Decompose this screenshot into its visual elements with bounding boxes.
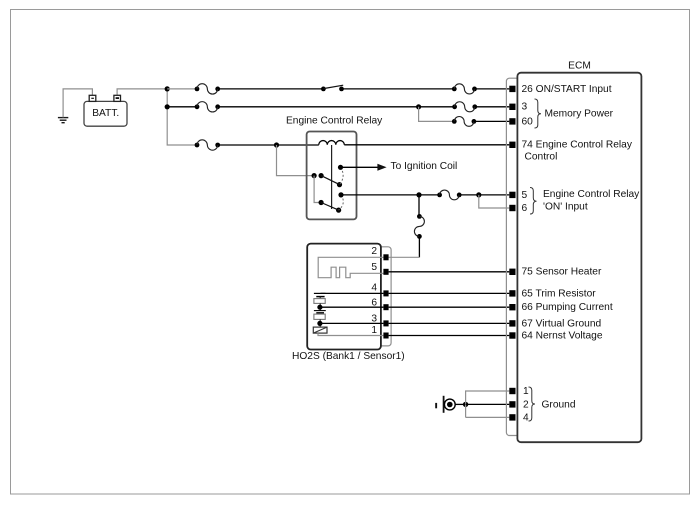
wire coil to ECM pin 74 [344, 144, 509, 146]
wire fuse F4 to ECM pin 26 [475, 88, 510, 90]
node HO2S pin6 [317, 305, 322, 310]
wire row2 fuse to node [218, 106, 455, 108]
node ground branch [463, 402, 468, 407]
ECM pin squares [509, 86, 515, 421]
ECM pin labels [522, 84, 641, 424]
wire HO2S 6 to ECM 66 [389, 306, 510, 308]
relay lower fixed contact [338, 192, 343, 197]
relay common drop wire [314, 176, 321, 203]
bus vertical from battery [167, 89, 197, 145]
fuse F2 [195, 102, 221, 112]
wire ground to ECM pin 2 [466, 403, 510, 405]
HO2S pin squares [383, 254, 388, 338]
ignition switch [321, 85, 344, 91]
fuse F6 [452, 116, 476, 126]
HO2S trim resistor (box with diagonal) [313, 327, 327, 333]
relay upper fixed contact [338, 165, 343, 170]
svg-text:Ground: Ground [542, 399, 576, 410]
ECM box [517, 73, 641, 443]
svg-text:Engine Control Relay: Engine Control Relay [543, 189, 640, 200]
wire fuse F5 to ECM pin 3 [475, 106, 510, 108]
wire fuse F7 to pin 5 [459, 194, 509, 196]
node relay output branch [416, 192, 421, 197]
svg-text:BATT.: BATT. [92, 108, 119, 119]
svg-text:5: 5 [371, 262, 377, 273]
relay box [307, 132, 357, 220]
relay common node [312, 173, 317, 178]
svg-text:2: 2 [371, 246, 377, 257]
svg-text:5: 5 [522, 190, 528, 201]
svg-text:3: 3 [522, 102, 528, 113]
svg-text:75 Sensor Heater: 75 Sensor Heater [522, 267, 602, 278]
svg-text:66 Pumping Current: 66 Pumping Current [522, 302, 613, 313]
fuse F8 vertical [414, 214, 424, 239]
chassis ground symbol [435, 396, 455, 413]
relay lower contact blade [319, 195, 344, 213]
svg-text:60: 60 [522, 116, 534, 127]
ECM connector strip [506, 78, 517, 435]
wire fuse F6 to ECM pin 60 [474, 120, 509, 122]
battery BATT. [84, 95, 127, 126]
wire fuse F8 down to HO2S pin 2 [418, 236, 420, 257]
node row3 relay feed [274, 142, 279, 147]
wire HO2S 4 to ECM 65 [389, 292, 510, 294]
svg-text:ECM: ECM [568, 60, 591, 71]
wire HO2S pin3 [320, 322, 384, 324]
wire to ignition coil [341, 166, 378, 168]
svg-text:4: 4 [523, 412, 529, 423]
svg-text:To Ignition Coil: To Ignition Coil [391, 161, 458, 172]
svg-text:65 Trim Resistor: 65 Trim Resistor [522, 288, 597, 299]
wire HO2S 3 to ECM 67 [389, 322, 510, 324]
fuse F5 [452, 102, 477, 112]
ground (battery negative) [58, 118, 68, 123]
wire HO2S 1 to ECM 64 [389, 335, 510, 337]
svg-text:4: 4 [371, 283, 377, 294]
svg-text:Memory Power: Memory Power [545, 108, 614, 119]
wire row3 fuse to relay coil [218, 144, 319, 146]
wire ground to node [455, 403, 466, 405]
HO2S connector strip [381, 247, 391, 346]
HO2S pin numbers [371, 246, 377, 336]
svg-text:Control: Control [525, 152, 558, 163]
relay armature link [331, 145, 333, 209]
wire row1 fuse to ignition switch [218, 88, 324, 90]
wire relay output to ECM pin 5 [341, 194, 440, 196]
wire HO2S pin6 [320, 306, 384, 308]
wire branch down to vertical fuse [418, 195, 420, 217]
wire relay feed to contacts common [277, 145, 315, 176]
arrowhead [377, 164, 386, 171]
svg-text:1: 1 [371, 325, 377, 336]
svg-text:3: 3 [371, 313, 377, 324]
fuse F4 [452, 84, 477, 94]
fuse F3 row3 [195, 140, 221, 150]
brace ground [529, 387, 536, 421]
wire trim resistor to pin 1 [318, 333, 383, 335]
wire HO2S 5 to ECM 75 [389, 271, 510, 273]
node bus row2 [165, 104, 170, 109]
HO2S heater element [318, 257, 383, 277]
svg-text:2: 2 [523, 399, 529, 410]
wire HO2S pin4 [321, 292, 384, 294]
svg-text:1: 1 [523, 386, 529, 397]
wire switch to fuse F4 [342, 88, 455, 90]
wire jog row2 down to row 60 [419, 107, 455, 122]
node row2 branch [416, 104, 421, 109]
relay upper contact blade [319, 167, 344, 187]
wire row1 to fuse [167, 88, 197, 90]
node HO2S pin3 [317, 321, 322, 326]
HO2S nernst resistor [314, 314, 325, 319]
HO2S pump cell plates [314, 292, 326, 294]
HO2S box [307, 244, 381, 350]
svg-text:26 ON/START Input: 26 ON/START Input [522, 84, 612, 95]
wire battery positive to bus [117, 89, 167, 95]
svg-text:6: 6 [522, 203, 528, 214]
node pin6 branch [476, 192, 481, 197]
fuse F1 [195, 84, 221, 94]
svg-text:'ON' Input: 'ON' Input [543, 201, 588, 212]
wire battery negative to ground [63, 89, 92, 118]
wire jog to ECM pin 6 [479, 195, 510, 208]
brace ON input [530, 188, 537, 215]
wire row2 to fuse [167, 106, 197, 108]
fuse F7 [437, 190, 461, 200]
svg-text:Engine Control Relay: Engine Control Relay [286, 116, 383, 127]
svg-text:67 Virtual Ground: 67 Virtual Ground [522, 318, 602, 329]
brace memory power [535, 99, 542, 128]
HO2S pump resistor [314, 299, 325, 304]
wire ground branches [466, 391, 510, 417]
relay coil L [319, 141, 345, 145]
node bus row1 [165, 86, 170, 91]
HO2S nernst cell plates [314, 310, 326, 312]
svg-text:HO2S (Bank1 / Sensor1): HO2S (Bank1 / Sensor1) [292, 351, 405, 362]
svg-text:6: 6 [371, 298, 377, 309]
svg-text:64 Nernst Voltage: 64 Nernst Voltage [522, 330, 603, 341]
svg-text:74 Engine Control Relay: 74 Engine Control Relay [522, 140, 633, 151]
